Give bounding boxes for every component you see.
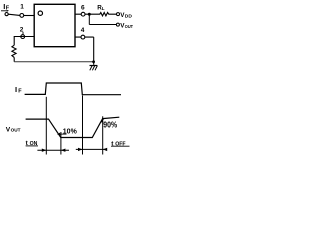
- svg-text:4: 4: [81, 27, 85, 34]
- svg-text:DD: DD: [125, 14, 133, 20]
- svg-text:1: 1: [20, 4, 24, 11]
- svg-text:OUT: OUT: [125, 24, 133, 30]
- svg-text:6: 6: [81, 5, 85, 12]
- svg-text:90%: 90%: [103, 121, 117, 130]
- svg-text:OUT: OUT: [11, 128, 21, 133]
- svg-text:I: I: [15, 85, 17, 94]
- svg-text:L: L: [102, 6, 105, 11]
- svg-text:10%: 10%: [63, 126, 77, 135]
